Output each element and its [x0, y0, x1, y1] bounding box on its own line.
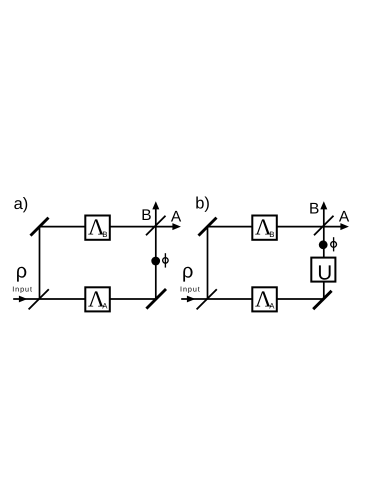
svg-text:b): b) — [195, 195, 210, 213]
svg-text:B: B — [141, 207, 151, 224]
box Lambda_A (channel on A arm, panel a) — [85, 287, 110, 312]
mirror a top-left — [31, 218, 49, 236]
svg-text:ρ: ρ — [16, 260, 27, 282]
beamsplitter a top-right (output BS) — [146, 216, 166, 236]
svg-text:Input: Input — [12, 284, 33, 293]
arrowhead: b output B (up) — [320, 201, 327, 209]
wire: b output A stub — [324, 226, 343, 228]
phase dot b — [319, 240, 328, 249]
phase label phi b — [331, 237, 337, 251]
phase label phi a — [163, 253, 169, 267]
svg-text:B: B — [102, 230, 107, 239]
svg-text:A: A — [171, 209, 182, 226]
svg-text:A: A — [102, 302, 108, 311]
svg-text:U: U — [317, 261, 332, 284]
svg-text:B: B — [269, 230, 274, 239]
svg-text:Input: Input — [180, 284, 201, 293]
phase dot a — [151, 257, 160, 266]
beamsplitter b top-right (output BS) — [314, 216, 334, 236]
wire: b top path horizontal — [208, 226, 324, 228]
wire: a bottom path horizontal (input to mirror) — [13, 298, 156, 300]
arrowhead: b input arrow — [187, 296, 196, 303]
box Lambda_B (channel on B arm, panel b) — [252, 215, 276, 240]
wire: a right vertical (B output up through phase to mirror) — [155, 207, 157, 299]
wire: a left vertical — [39, 227, 41, 299]
svg-text:A: A — [339, 209, 350, 226]
wire: b left vertical — [207, 227, 209, 299]
beamsplitter b bottom-left (input BS) — [197, 289, 217, 309]
mirror a bottom-right — [146, 289, 166, 309]
mirror b bottom-right — [313, 291, 331, 309]
wire: b right vertical (B output up through phase and U to mirror) — [323, 207, 325, 299]
wire: b bottom path horizontal (input to mirror) — [181, 298, 324, 300]
wire: a top path horizontal — [40, 226, 156, 228]
box Lambda_A (channel on A arm, panel b) — [252, 287, 276, 312]
mirror b top-left — [199, 218, 217, 236]
arrowhead: a output B (up) — [152, 201, 159, 209]
box Lambda_B (channel on B arm, panel a) — [85, 215, 110, 240]
svg-text:B: B — [309, 200, 319, 217]
arrowhead: a input arrow — [19, 296, 28, 303]
arrowhead: b output A (right) — [340, 223, 349, 230]
svg-text:ρ: ρ — [182, 260, 193, 282]
svg-text:A: A — [269, 302, 275, 311]
wire: a output A stub — [156, 226, 175, 228]
svg-text:a): a) — [14, 195, 29, 213]
arrowhead: a output A (right) — [172, 223, 181, 230]
box U (unitary, panel b) — [311, 258, 335, 285]
beamsplitter a bottom-left (input BS) — [29, 289, 49, 309]
